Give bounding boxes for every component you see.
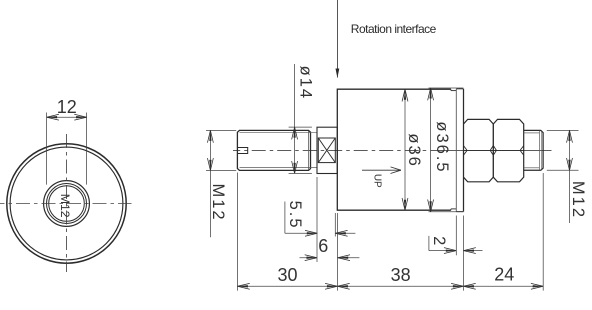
svg-text:6: 6 [318, 236, 328, 256]
svg-text:38: 38 [391, 265, 411, 285]
svg-text:M12: M12 [58, 194, 72, 218]
svg-text:5.5: 5.5 [286, 201, 304, 230]
svg-text:ø36: ø36 [405, 133, 423, 167]
svg-text:ø36.5: ø36.5 [433, 121, 451, 173]
svg-text:ø14: ø14 [296, 66, 314, 100]
svg-text:M12: M12 [569, 181, 587, 219]
svg-text:24: 24 [494, 265, 514, 285]
svg-text:30: 30 [277, 265, 297, 285]
svg-text:Rotation interface: Rotation interface [351, 22, 437, 36]
svg-text:M12: M12 [209, 183, 227, 221]
svg-text:UP: UP [372, 174, 383, 188]
svg-text:2: 2 [430, 236, 448, 245]
svg-text:12: 12 [57, 97, 77, 117]
